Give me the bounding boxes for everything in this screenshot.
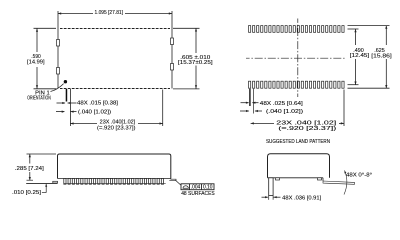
svg-text:.285 [7.24]: .285 [7.24] [15,166,45,172]
svg-text:.010 [0.25]: .010 [0.25] [12,190,42,196]
svg-text:SUGGESTED LAND PATTERN: SUGGESTED LAND PATTERN [266,139,330,145]
svg-text:(=.920 [23.37]): (=.920 [23.37]) [97,125,136,131]
svg-text:48X 0°-8°: 48X 0°-8° [346,173,372,179]
svg-text:ORIENTATION: ORIENTATION [27,96,51,102]
svg-text:[12.45]: [12.45] [350,53,370,59]
svg-text:1.095 [27.81]: 1.095 [27.81] [95,10,124,16]
svg-text:(.040 [1.02]): (.040 [1.02]) [78,109,111,115]
svg-text:48X .015 [0.38]: 48X .015 [0.38] [77,100,119,106]
svg-text:0.10: 0.10 [203,185,213,191]
svg-text:(=.920 [23.37]): (=.920 [23.37]) [278,126,336,132]
svg-text:48X .036 [0.91]: 48X .036 [0.91] [282,195,322,201]
svg-text:[15.86]: [15.86] [371,54,392,60]
svg-text:48X .025 [0.64]: 48X .025 [0.64] [260,101,304,107]
svg-text:(.040 [1.02]): (.040 [1.02]) [266,109,303,115]
svg-text:[15.37±0.25]: [15.37±0.25] [178,60,213,66]
svg-text:48 SURFACES: 48 SURFACES [181,191,215,197]
svg-text:[14.99]: [14.99] [27,59,45,65]
svg-text:.004: .004 [191,185,201,191]
